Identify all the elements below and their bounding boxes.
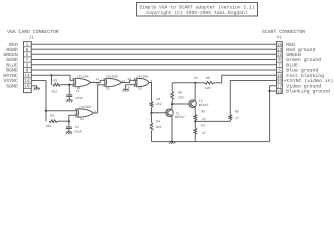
svg-text:Video ground: Video ground [286, 84, 321, 90]
wire ground rail up to P1 pins 17 18 [270, 86, 277, 142]
wire BLUE J1 to P1 [31, 64, 276, 66]
resistor R3 [150, 97, 162, 108]
node HSYNC split [50, 74, 52, 76]
J1 pin 6 RGND [6, 47, 28, 53]
svg-text:U1: U1 [80, 117, 84, 121]
wire R6 to divider node [194, 120, 196, 121]
svg-text:22uF: 22uF [75, 96, 83, 100]
J1 pin 13 HSYNC [3, 73, 30, 79]
svg-text:47: 47 [202, 131, 206, 135]
resistor R4 [150, 113, 161, 142]
svg-text:74LS86: 74LS86 [137, 74, 149, 78]
svg-text:9: 9 [278, 58, 281, 63]
svg-text:R7: R7 [201, 124, 205, 128]
P1 pin 17 Video ground [277, 84, 322, 90]
wire R2 to C2 node [58, 120, 69, 122]
svg-text:BLUE: BLUE [6, 63, 18, 69]
node divider [194, 120, 196, 122]
J1 pin 8 BGND [6, 68, 28, 74]
wire GREEN J1 to P1 [31, 53, 276, 55]
svg-text:47: 47 [202, 117, 206, 121]
svg-text:11: 11 [121, 80, 125, 83]
svg-text:5V: 5V [194, 76, 198, 80]
wire BGND J1 to P1 [31, 69, 276, 71]
wire T2 emitter to R6 [194, 107, 196, 109]
wire HSYNC down to R1 [51, 75, 53, 84]
svg-text:Green ground: Green ground [286, 57, 321, 63]
wire to P1 pin18 [270, 90, 277, 92]
svg-text:4: 4 [75, 108, 77, 111]
svg-text:BGND: BGND [6, 68, 18, 74]
svg-text:14: 14 [24, 79, 30, 84]
J1 pin 3 BLUE [6, 63, 28, 69]
connector P1 body [277, 36, 283, 94]
svg-text:5: 5 [278, 69, 281, 74]
node 5V rail [194, 76, 198, 84]
ground C2 [66, 132, 73, 134]
svg-text:47: 47 [235, 116, 239, 120]
svg-text:J1: J1 [29, 35, 34, 40]
svg-text:R6: R6 [201, 109, 205, 113]
svg-text:R8: R8 [206, 76, 210, 80]
resistor R6 [194, 109, 206, 121]
svg-text:2K2: 2K2 [46, 124, 52, 128]
wire T2 collector up to 5V rail [194, 83, 196, 100]
wire VSYNC from J1 [31, 80, 46, 82]
svg-text:2: 2 [72, 82, 74, 85]
svg-text:C2: C2 [75, 125, 79, 129]
svg-text:U1: U1 [138, 86, 142, 90]
J1 pin 10 SGND [6, 84, 30, 90]
wire R9 up to P1 pin20 [230, 81, 276, 115]
svg-text:74LS86: 74LS86 [77, 74, 89, 78]
wire T1 collector up [171, 104, 173, 109]
wire R3 to T1 base node [151, 107, 153, 113]
svg-text:2K2: 2K2 [51, 89, 57, 93]
svg-text:U1: U1 [106, 86, 110, 90]
wire R1 to U1A pin2 [61, 84, 75, 86]
wire HSYNC direct to U1A pin1 [52, 75, 75, 80]
svg-text:Fast blanking: Fast blanking [286, 73, 324, 79]
wire C2 node to U1B pin5 [69, 115, 77, 121]
svg-text:Copyright (C) 1993-1995 Tomi E: Copyright (C) 1993-1995 Tomi Engdahl [146, 10, 247, 16]
svg-text:18: 18 [277, 90, 283, 95]
op-amp U1B 74LS86 xor [75, 105, 97, 121]
svg-text:R5: R5 [178, 90, 182, 94]
wire GGND J1 to P1 [31, 59, 276, 61]
wire base node to T1 [152, 112, 168, 114]
wire RGND J1 to P1 [31, 48, 276, 50]
wire VSYNC direct to U1B pin4 [46, 110, 77, 112]
P1 pin 11 GREEN [277, 52, 301, 58]
left connector title [7, 29, 59, 35]
svg-text:BC547: BC547 [199, 103, 209, 107]
ground symbol on rail [169, 141, 176, 144]
op-amp U1D 74LS86 xor [134, 74, 152, 90]
svg-text:Blue ground: Blue ground [286, 68, 318, 74]
node pin18 tie [269, 90, 271, 92]
svg-text:2K2: 2K2 [156, 102, 162, 106]
svg-text:10: 10 [127, 78, 131, 81]
svg-text:8: 8 [26, 69, 29, 74]
P1 pin 16 Fast blanking [277, 73, 324, 79]
svg-text:U1: U1 [77, 86, 81, 90]
svg-text:5: 5 [75, 113, 77, 116]
svg-text:74LS86: 74LS86 [79, 105, 91, 109]
svg-text:Simple VGA to SCART adapter (v: Simple VGA to SCART adapter (version 2.1… [139, 5, 255, 11]
svg-text:R9: R9 [235, 110, 239, 114]
resistor R9 [229, 110, 239, 122]
wire divider node to R9 [195, 120, 230, 122]
svg-text:VSYNC: VSYNC [3, 78, 18, 84]
svg-text:BC547: BC547 [175, 115, 185, 119]
svg-text:Blanking ground: Blanking ground [286, 89, 330, 95]
wire U1C out to U1D pin10 [121, 78, 137, 83]
wire HSYNC from J1 [31, 74, 51, 76]
node C1 top [68, 84, 70, 86]
svg-text:13: 13 [96, 78, 100, 81]
svg-text:R4: R4 [156, 120, 160, 124]
svg-text:120: 120 [205, 86, 211, 90]
op-amp U1C 74LS86 xor [96, 74, 122, 90]
wire U1B out riser to U1C pin12 [93, 85, 105, 113]
ground SGND [33, 88, 40, 90]
resistor R1 [51, 78, 60, 93]
svg-text:10: 10 [24, 85, 30, 90]
wire VSYNC down [45, 81, 47, 122]
P1 pin 5 Blue ground [278, 68, 318, 74]
P1 pin 9 Green ground [278, 57, 321, 63]
op-amp U1A 74LS86 xor [72, 74, 94, 90]
P1 pin 7 BLUE [278, 63, 298, 69]
svg-text:22uF: 22uF [74, 130, 82, 134]
ground C1 [66, 100, 73, 102]
power rail 5V [172, 82, 204, 84]
wire RED J1 to P1 [31, 43, 276, 45]
wire SGND stub [31, 86, 36, 88]
svg-text:RED: RED [286, 42, 295, 48]
svg-text:R3: R3 [156, 97, 160, 101]
title block [137, 3, 258, 17]
svg-text:BLUE: BLUE [286, 63, 298, 69]
svg-text:2K2: 2K2 [156, 125, 162, 129]
right connector title [262, 29, 305, 35]
wire R8 to P1 pin16 [214, 75, 277, 83]
resistor R7 [194, 121, 206, 141]
P1 pin 15 RED [277, 42, 295, 48]
node T1 base [150, 112, 152, 114]
node T1 collector [171, 103, 173, 105]
svg-text:7: 7 [26, 58, 29, 63]
wire U1A out to U1C pin13 [91, 80, 106, 82]
svg-text:GREEN: GREEN [3, 52, 18, 58]
svg-text:SCART CONNECTOR: SCART CONNECTOR [262, 29, 305, 35]
svg-text:GGND: GGND [6, 57, 18, 63]
ground rail [152, 141, 270, 143]
node VSYNC split [45, 110, 47, 112]
ground U1D pin9 [123, 89, 130, 91]
transistor T2 BC547 [189, 99, 209, 108]
svg-text:+CSYNC (video in): +CSYNC (video in) [284, 78, 334, 84]
wire T1 emitter to ground rail [171, 116, 173, 141]
wire ground riser to U1D pin9 [126, 85, 138, 90]
capacitor C1 [66, 85, 83, 101]
resistor R2 [46, 113, 58, 128]
node C2 top [68, 120, 70, 122]
svg-text:20: 20 [277, 79, 283, 84]
J1 pin 14 VSYNC [3, 78, 30, 84]
J1 pin 2 GREEN [3, 52, 28, 58]
svg-text:VGA CARD CONNECTOR: VGA CARD CONNECTOR [7, 29, 59, 35]
svg-text:1: 1 [72, 77, 74, 80]
P1 pin 13 Red ground [277, 47, 316, 53]
J1 pin 1 RED [9, 42, 28, 48]
svg-text:SGND: SGND [6, 84, 18, 90]
resistor R5 [171, 83, 184, 104]
P1 pin 20 +CSYNC (video in) [277, 78, 334, 84]
svg-text:2K2: 2K2 [178, 96, 184, 100]
svg-text:HSYNC: HSYNC [3, 73, 18, 79]
svg-text:RED: RED [9, 42, 18, 48]
svg-text:74LS86: 74LS86 [106, 74, 118, 78]
wire T2 base [172, 103, 191, 105]
connector J1 body [24, 35, 35, 92]
resistor R8 [205, 76, 215, 90]
svg-text:R2: R2 [51, 113, 55, 117]
transistor T1 BC547 [166, 109, 185, 119]
svg-text:12: 12 [96, 82, 100, 85]
svg-text:R1: R1 [54, 78, 58, 82]
svg-text:GREEN: GREEN [286, 52, 301, 58]
capacitor C2 [66, 121, 82, 133]
wire U1D out corner [149, 83, 152, 97]
P1 pin 18 Blanking ground [277, 89, 330, 95]
svg-text:P1: P1 [277, 36, 282, 41]
J1 pin 7 GGND [6, 57, 28, 63]
